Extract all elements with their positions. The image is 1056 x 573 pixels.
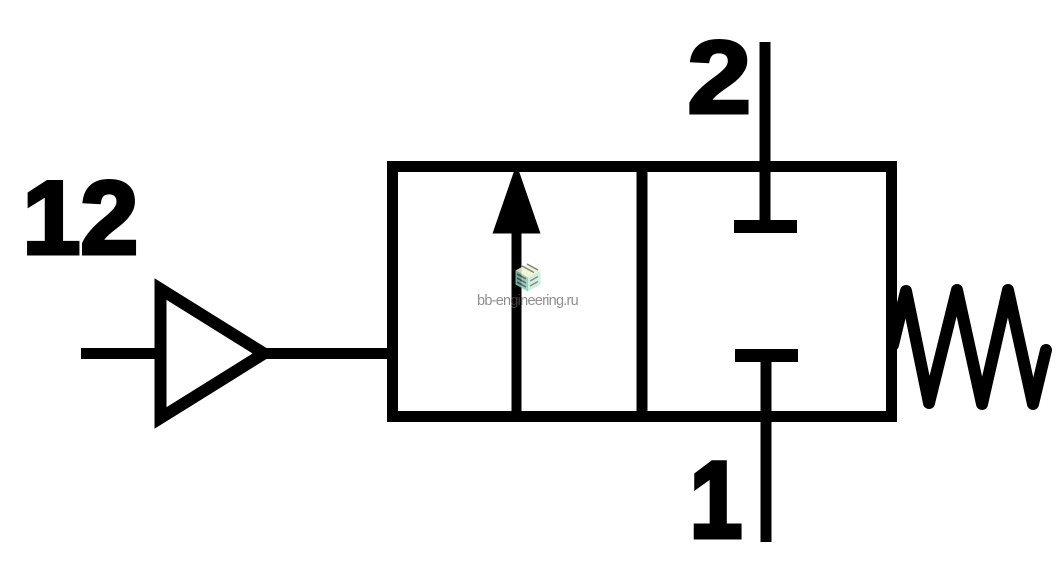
port 2 line	[760, 42, 771, 227]
pilot triangle	[161, 289, 265, 418]
flow arrow head	[493, 164, 541, 234]
watermark cube logo	[516, 264, 541, 292]
pilot lead wire left	[81, 348, 160, 359]
pilot wire to valve	[262, 348, 392, 359]
port 1 line	[761, 356, 772, 543]
svg-text:bb-engineering.ru: bb-engineering.ru	[477, 293, 579, 309]
svg-text:2: 2	[687, 20, 752, 136]
return spring	[893, 290, 1046, 404]
svg-text:1: 1	[690, 439, 742, 560]
valve body outer box	[393, 167, 892, 417]
svg-text:12: 12	[23, 161, 139, 277]
valve position divider	[637, 167, 648, 417]
flow arrow shaft	[512, 228, 522, 416]
port 2 blocked-port crossbar	[734, 220, 797, 233]
port 1 blocked-port crossbar	[735, 349, 798, 362]
